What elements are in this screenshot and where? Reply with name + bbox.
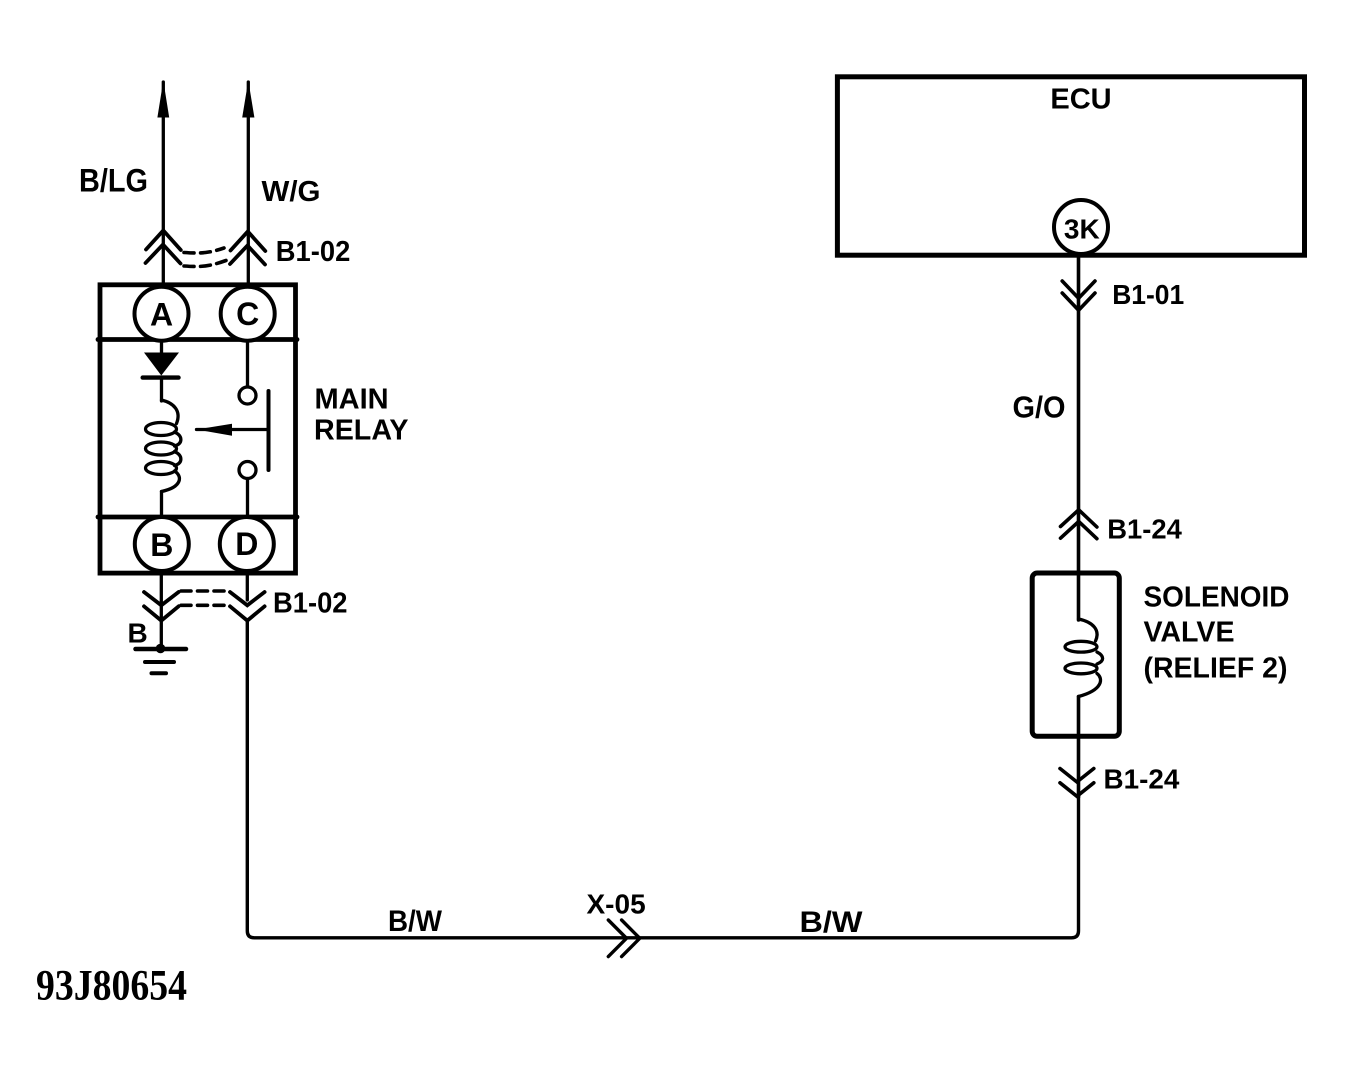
svg-text:B1-24: B1-24 <box>1107 514 1182 545</box>
svg-text:VALVE: VALVE <box>1144 617 1235 649</box>
svg-text:93J80654: 93J80654 <box>36 963 187 1010</box>
svg-text:(RELIEF 2): (RELIEF 2) <box>1144 653 1288 685</box>
svg-text:A: A <box>150 297 173 333</box>
svg-text:B: B <box>128 618 148 649</box>
svg-text:B1-02: B1-02 <box>273 588 348 620</box>
svg-text:B/W: B/W <box>388 905 443 938</box>
svg-text:D: D <box>235 526 258 562</box>
svg-text:B/W: B/W <box>800 906 864 939</box>
svg-text:B1-02: B1-02 <box>276 236 351 268</box>
svg-text:C: C <box>236 296 259 332</box>
svg-text:G/O: G/O <box>1013 390 1066 425</box>
svg-text:ECU: ECU <box>1050 84 1111 116</box>
svg-text:RELAY: RELAY <box>314 415 409 447</box>
svg-text:B1-01: B1-01 <box>1112 279 1184 310</box>
svg-text:W/G: W/G <box>262 176 321 208</box>
svg-text:X-05: X-05 <box>587 889 646 920</box>
svg-text:MAIN: MAIN <box>315 384 389 416</box>
svg-text:B1-24: B1-24 <box>1104 764 1180 795</box>
svg-text:B: B <box>150 527 173 563</box>
svg-text:B/LG: B/LG <box>79 163 148 199</box>
svg-text:SOLENOID: SOLENOID <box>1144 582 1290 614</box>
svg-text:3K: 3K <box>1064 214 1100 245</box>
